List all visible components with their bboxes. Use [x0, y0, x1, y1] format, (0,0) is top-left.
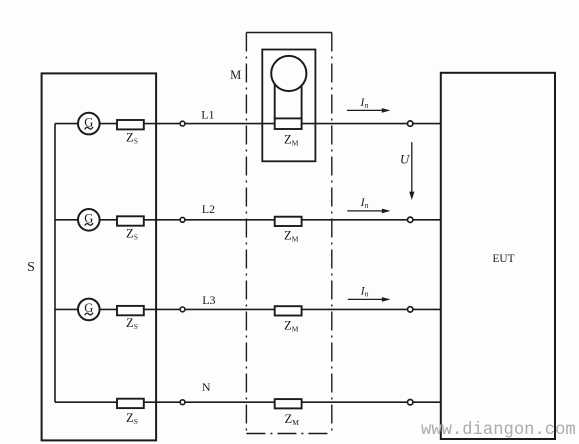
node L2 left	[180, 217, 185, 222]
measurement boundary M bottom	[246, 433, 331, 435]
measurement boundary M top	[246, 32, 331, 34]
impedance Z_M L1 box	[275, 118, 302, 129]
measurement boundary M left	[245, 33, 247, 434]
generator G2 label	[84, 212, 93, 226]
wire L3	[55, 308, 441, 310]
generator G3	[78, 299, 100, 321]
svg-text:ZM: ZM	[284, 133, 299, 148]
meter body rectangle	[262, 50, 315, 162]
impedance Z_S L3 box	[117, 306, 144, 315]
impedance Z_S L1 box	[117, 120, 144, 129]
generator G1 label	[84, 115, 93, 129]
node L1 right	[408, 121, 413, 126]
voltage arrow U	[409, 142, 414, 200]
generator G3 label	[84, 301, 93, 315]
svg-text:In: In	[360, 285, 369, 298]
EUT box	[441, 73, 555, 439]
impedance Z_M N box	[275, 399, 302, 408]
meter pillar right	[301, 83, 303, 118]
svg-text:U: U	[400, 152, 411, 167]
node L3 left	[180, 307, 185, 312]
impedance Z_S N box	[117, 399, 144, 408]
svg-text:In: In	[360, 97, 369, 110]
current arrow I_n L2	[347, 209, 390, 214]
impedance Z_M L3 box	[275, 306, 302, 315]
meter pillar left	[274, 83, 276, 118]
node N left	[180, 400, 185, 405]
current arrow I_n L1	[347, 108, 390, 113]
impedance Z_S L2 box	[117, 216, 144, 225]
svg-text:L2: L2	[202, 202, 215, 216]
svg-text:ZS: ZS	[126, 411, 138, 426]
svg-text:ZS: ZS	[126, 316, 138, 331]
measurement boundary M right	[331, 33, 333, 434]
svg-text:EUT: EUT	[493, 253, 515, 265]
wire L2	[55, 219, 441, 221]
impedance Z_M L2 box	[275, 217, 302, 226]
svg-text:ZM: ZM	[284, 318, 299, 333]
svg-text:In: In	[360, 197, 369, 210]
svg-text:www.diangon.com: www.diangon.com	[421, 421, 576, 440]
svg-text:M: M	[230, 68, 241, 82]
svg-text:ZS: ZS	[126, 226, 138, 241]
node L1 left	[180, 121, 185, 126]
svg-text:ZM: ZM	[285, 412, 300, 427]
node L2 right	[408, 217, 413, 222]
current arrow I_n L3	[348, 297, 391, 302]
svg-text:ZM: ZM	[284, 229, 299, 244]
generator G2	[78, 209, 100, 231]
node L3 right	[408, 307, 413, 312]
generator G1	[78, 113, 100, 135]
wire N	[55, 401, 441, 403]
svg-text:ZS: ZS	[126, 131, 138, 146]
wire L1	[55, 123, 441, 125]
source box S	[42, 73, 157, 440]
svg-text:L3: L3	[202, 293, 215, 307]
wire source bus	[54, 124, 56, 403]
svg-text:L1: L1	[201, 107, 214, 121]
node N right	[408, 400, 413, 405]
svg-text:S: S	[27, 260, 35, 275]
meter circle	[271, 56, 306, 91]
svg-text:N: N	[202, 380, 211, 394]
